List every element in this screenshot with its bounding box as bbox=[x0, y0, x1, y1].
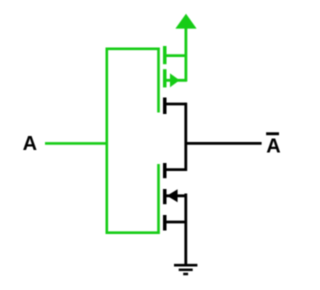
wire NMOS gate line (right vertical, lower segment) bbox=[157, 164, 160, 234]
transistor Q1 PMOS drain contact bar bbox=[163, 98, 167, 115]
transistor Q2 NMOS bulk arrow bbox=[167, 189, 178, 202]
wire input A bbox=[45, 142, 108, 145]
transistor Q2 NMOS bulk lead bbox=[166, 194, 187, 197]
transistor Q2 NMOS drain lead bbox=[166, 168, 187, 171]
transistor Q1 PMOS bulk arrow bbox=[170, 73, 180, 87]
wire VDD vertical bbox=[184, 28, 187, 82]
node A-bar overbar bbox=[266, 132, 279, 135]
ground bar 1 bbox=[174, 264, 197, 267]
transistor Q1 PMOS bulk contact bar bbox=[163, 69, 167, 87]
power VDD arrow symbol bbox=[175, 14, 196, 29]
ground bar 2 bbox=[179, 269, 193, 272]
wire output horizontal bbox=[185, 142, 262, 145]
ground bar 3 bbox=[183, 273, 188, 276]
svg-text:A: A bbox=[266, 135, 280, 157]
wire PMOS gate line (right vertical, upper segment) bbox=[157, 48, 160, 113]
transistor Q1 PMOS source contact bar bbox=[163, 46, 167, 64]
wire gate loop top bbox=[106, 47, 160, 50]
transistor Q1 PMOS drain lead bbox=[166, 103, 187, 106]
wire gate loop bottom bbox=[106, 231, 160, 234]
transistor Q2 NMOS bulk contact bar bbox=[163, 189, 167, 204]
svg-text:A: A bbox=[23, 133, 37, 155]
wire output node vertical bbox=[184, 103, 187, 171]
transistor Q2 NMOS source lead bbox=[166, 221, 187, 224]
transistor Q2 NMOS drain contact bar bbox=[163, 163, 167, 178]
transistor Q1 PMOS source lead bbox=[166, 54, 187, 57]
transistor Q2 NMOS source contact bar bbox=[163, 215, 167, 231]
wire NMOS source to ground vertical bbox=[184, 194, 187, 266]
transistor Q1 PMOS bulk lead bbox=[166, 79, 187, 82]
wire gate loop left vertical bbox=[106, 48, 109, 234]
